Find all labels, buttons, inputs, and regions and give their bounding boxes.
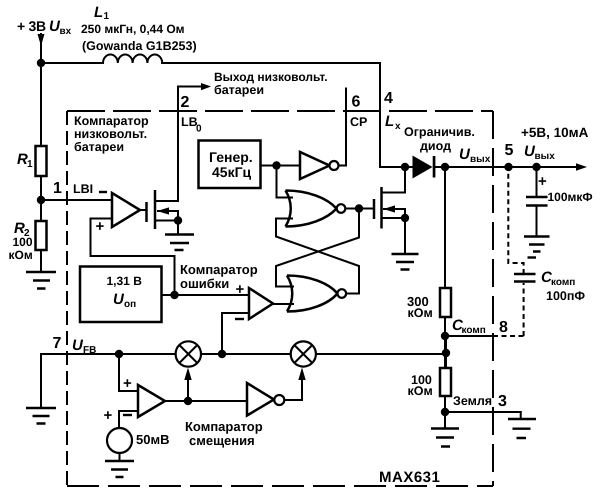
svg-text:CP: CP xyxy=(350,115,367,129)
svg-text:LB: LB xyxy=(181,115,198,129)
svg-text:4: 4 xyxy=(384,90,393,107)
svg-text:45кГц: 45кГц xyxy=(212,164,252,180)
svg-text:батареи: батареи xyxy=(214,83,264,97)
svg-text:Генер.: Генер. xyxy=(209,149,253,165)
svg-text:Выход низковольт.: Выход низковольт. xyxy=(214,70,328,84)
svg-text:100: 100 xyxy=(13,235,33,249)
svg-text:2: 2 xyxy=(181,94,190,111)
svg-text:300: 300 xyxy=(407,294,429,309)
svg-text:батареи: батареи xyxy=(74,140,124,154)
svg-text:Компаратор: Компаратор xyxy=(180,262,258,277)
svg-text:ошибки: ошибки xyxy=(180,276,229,291)
svg-text:50мВ: 50мВ xyxy=(136,432,169,447)
svg-text:1,31 В: 1,31 В xyxy=(107,274,143,288)
svg-text:вых: вых xyxy=(535,151,556,162)
svg-text:(Gowanda G1B253): (Gowanda G1B253) xyxy=(82,39,197,53)
svg-text:+: + xyxy=(104,407,113,424)
svg-text:+: + xyxy=(538,173,547,190)
svg-text:8: 8 xyxy=(499,319,508,336)
svg-text:низковольт.: низковольт. xyxy=(74,127,147,141)
svg-text:LBI: LBI xyxy=(73,182,93,196)
svg-text:+ 3В: + 3В xyxy=(17,18,46,34)
svg-text:+: + xyxy=(96,218,105,235)
svg-text:x: x xyxy=(395,121,401,132)
svg-text:+: + xyxy=(236,281,245,298)
svg-text:1: 1 xyxy=(27,159,33,170)
svg-text:комп: комп xyxy=(462,325,486,336)
svg-text:L: L xyxy=(385,113,394,130)
svg-text:2: 2 xyxy=(24,228,30,239)
svg-text:FB: FB xyxy=(83,345,96,356)
svg-text:1: 1 xyxy=(104,11,110,22)
svg-text:Земля: Земля xyxy=(453,394,492,408)
svg-text:смещения: смещения xyxy=(189,433,255,448)
svg-text:Компаратор: Компаратор xyxy=(185,419,263,434)
svg-text:3: 3 xyxy=(498,393,507,410)
svg-text:диод: диод xyxy=(420,139,451,153)
svg-text:вх: вх xyxy=(60,26,72,37)
svg-text:+5В, 10мА: +5В, 10мА xyxy=(521,125,589,140)
svg-text:1: 1 xyxy=(53,180,62,197)
svg-text:7: 7 xyxy=(53,335,62,352)
svg-text:комп: комп xyxy=(551,277,575,288)
svg-text:100мкФ: 100мкФ xyxy=(548,190,593,204)
svg-text:+: + xyxy=(123,375,132,392)
svg-text:вых: вых xyxy=(470,154,491,165)
svg-text:кОм: кОм xyxy=(9,248,33,262)
svg-text:кОм: кОм xyxy=(408,384,433,398)
svg-text:оп: оп xyxy=(124,299,136,310)
svg-text:Ограничив.: Ограничив. xyxy=(404,125,475,139)
svg-text:MAX631: MAX631 xyxy=(379,469,440,486)
svg-text:100пФ: 100пФ xyxy=(546,289,585,303)
svg-text:250 мкГн, 0,44 Ом: 250 мкГн, 0,44 Ом xyxy=(81,22,185,36)
svg-text:6: 6 xyxy=(352,94,361,111)
svg-text:5: 5 xyxy=(505,142,514,159)
svg-text:L: L xyxy=(94,4,103,21)
svg-text:Компаратор: Компаратор xyxy=(74,114,149,128)
